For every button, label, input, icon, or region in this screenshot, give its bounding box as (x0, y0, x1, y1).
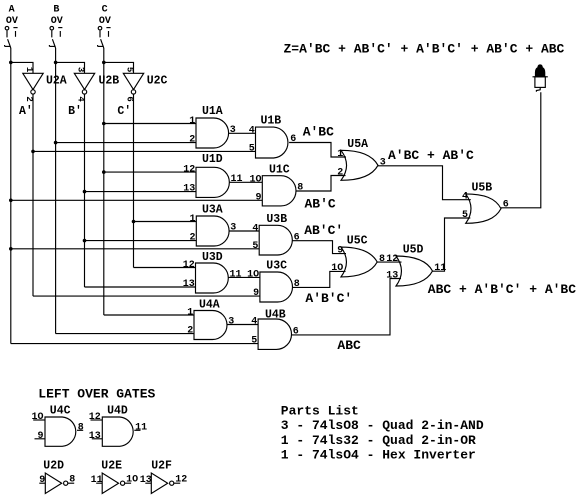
svg-text:8: 8 (379, 254, 385, 265)
OR gate U5A (341, 138, 378, 180)
wire A to U4B pin 5 (11, 343, 258, 345)
wire U1A.3 to U1B.4 (229, 132, 256, 134)
AND gate U1B (256, 114, 288, 158)
input switch C (0V toggle) (98, 5, 111, 48)
wire U5B.6 (Z) to LED (501, 92, 541, 208)
inverter U2B (74, 73, 119, 94)
junction node A / U1C pin 9 tap (9, 199, 13, 203)
svg-text:6: 6 (290, 134, 296, 145)
wire A' to U1B pin 5 (33, 150, 256, 152)
svg-text:U4C: U4C (50, 404, 71, 417)
svg-text:4: 4 (252, 223, 258, 234)
U4B pin numbers 4,5,6 (251, 317, 298, 347)
svg-text:13: 13 (183, 184, 195, 195)
wire A to U3B pin 5 (11, 248, 259, 250)
svg-text:U1A: U1A (202, 105, 223, 118)
junction node C / U2C tap (102, 61, 106, 65)
wire B' to U3D pin 13 (85, 286, 196, 288)
svg-text:8: 8 (69, 474, 75, 485)
svg-text:U2B: U2B (99, 75, 120, 88)
svg-text:LEFT OVER GATES: LEFT OVER GATES (38, 387, 155, 402)
svg-text:6: 6 (294, 232, 300, 243)
wire A' to U3C pin 9 (33, 295, 260, 297)
svg-text:U4D: U4D (107, 404, 128, 417)
svg-text:13: 13 (183, 279, 195, 290)
AND gate U4B (258, 309, 291, 350)
wire B to U1A pin 2 (56, 142, 196, 144)
wire net B' vertical run (from U2B output pin 4) (84, 94, 86, 287)
wire net B vertical run (55, 48, 57, 334)
wire U4B.6 (ABC) to U5D.13 (292, 279, 402, 335)
wire U5A.3 (A'BC + AB'C) to U5B.4 (378, 166, 471, 200)
svg-text:ABC + A'B'C' + A'BC: ABC + A'B'C' + A'BC (428, 282, 576, 297)
wire B' to U3A pin 2 (85, 240, 197, 242)
junction node C' / U3A pin 1 tap (132, 220, 136, 224)
AND gate U3D (196, 251, 229, 293)
input switch A (0V toggle) (5, 5, 18, 48)
svg-text:5: 5 (251, 336, 257, 347)
svg-text:Parts List: Parts List (281, 404, 359, 419)
wire U1B.6 (A'BC) to U5A.1 (289, 143, 346, 158)
U1B pin numbers 4,5,6 (249, 126, 297, 155)
svg-text:U3D: U3D (202, 251, 223, 264)
svg-text:B: B (53, 5, 59, 16)
AND gate U3C (260, 259, 293, 302)
wire U3D.11 to U3C.10 (228, 276, 260, 278)
wire U1D.11 to U1C.10 (229, 181, 262, 183)
svg-text:1O: 1O (331, 263, 343, 274)
U4C pin stubs and numbers 10,9,8 (32, 412, 84, 442)
U3A pin numbers 1,2,3 (190, 214, 237, 244)
wire C' to U3A pin 1 (134, 221, 197, 223)
wire C to inverter U2C input (pin 5) (104, 62, 134, 73)
svg-text:12: 12 (183, 260, 195, 271)
svg-text:1O: 1O (250, 175, 262, 186)
svg-text:1: 1 (190, 214, 196, 225)
wire U3A.3 to U3B.4 (229, 230, 259, 232)
svg-text:U3A: U3A (202, 204, 223, 217)
wire C to U1D pin 12 (104, 171, 196, 173)
AND gate U3A (196, 204, 229, 247)
svg-text:9: 9 (39, 475, 45, 486)
wire C to U1A pin 1 (104, 123, 196, 125)
OR gate U5D (396, 244, 433, 286)
OR gate U5B (466, 182, 501, 224)
svg-text:U2E: U2E (101, 459, 122, 472)
svg-text:2: 2 (190, 233, 196, 244)
wire B to inverter U2B input (pin 3) (56, 62, 85, 73)
svg-text:5: 5 (252, 241, 258, 252)
svg-text:1 - 74lsO4 - Hex Inverter: 1 - 74lsO4 - Hex Inverter (281, 447, 476, 462)
svg-text:U2D: U2D (43, 459, 64, 472)
wire B to U4A pin 2 (56, 333, 194, 335)
wire U3C.8 (A'B'C') to U5C.10 (293, 271, 346, 287)
junction node A / U3B pin 5 tap (9, 247, 13, 251)
svg-text:A': A' (19, 105, 33, 118)
svg-text:AB'C: AB'C (305, 197, 336, 212)
spare inverter U2E (101, 459, 124, 493)
svg-text:1O: 1O (126, 474, 138, 485)
junction node B' / U1D pin 13 tap (83, 190, 87, 194)
AND gate U3B (259, 213, 292, 255)
svg-text:1: 1 (337, 149, 343, 160)
svg-text:13: 13 (386, 270, 398, 281)
svg-text:A: A (9, 5, 15, 16)
svg-text:A'BC: A'BC (303, 125, 334, 140)
inverter U2A (23, 73, 67, 94)
U1A pin numbers 1,2,3 (189, 116, 236, 146)
junction node B / U1A pin 2 tap (54, 141, 58, 145)
svg-text:U5B: U5B (472, 182, 493, 195)
svg-text:4: 4 (251, 317, 257, 328)
wire A to U1C pin 9 (11, 199, 262, 201)
junction node A / U2A tap (9, 61, 13, 65)
junction node A' / U1B pin 5 tap (31, 150, 35, 154)
U5D pin numbers 12,13,11 (386, 254, 446, 281)
svg-text:9: 9 (38, 431, 44, 442)
svg-text:4: 4 (249, 126, 255, 137)
svg-text:U2C: U2C (147, 75, 168, 88)
svg-text:5: 5 (462, 210, 468, 221)
U2E pin stubs and numbers 11,10 (91, 474, 139, 485)
svg-text:11: 11 (231, 174, 243, 185)
svg-text:9: 9 (256, 192, 262, 203)
U1C pin numbers 10,9,8 (250, 175, 304, 204)
svg-text:OV: OV (99, 16, 111, 27)
wire A to inverter U2A input (pin 1) (11, 62, 33, 73)
U5C pin numbers 9,10,8 (331, 245, 385, 274)
svg-text:OV: OV (51, 16, 63, 27)
svg-text:2: 2 (189, 135, 195, 146)
wire net A vertical run (10, 48, 12, 344)
junction node C / U1A pin 1 tap (102, 122, 106, 126)
svg-text:ABC: ABC (337, 338, 361, 353)
svg-text:1 - 74ls32 - Quad 2-in-OR: 1 - 74ls32 - Quad 2-in-OR (281, 433, 476, 448)
svg-text:2: 2 (337, 167, 343, 178)
svg-text:6: 6 (293, 327, 299, 338)
LED output indicator (533, 64, 548, 91)
svg-text:B': B' (68, 105, 82, 118)
svg-text:3: 3 (230, 223, 236, 234)
svg-text:6: 6 (503, 200, 509, 211)
wire net C vertical run (103, 48, 105, 315)
svg-text:13: 13 (89, 431, 101, 442)
wire net C' vertical run (from U2C output pin 6) (133, 94, 135, 267)
spare AND gate U4C (45, 404, 76, 446)
svg-text:C: C (102, 5, 108, 16)
svg-text:8: 8 (294, 279, 300, 290)
svg-text:3 - 74lsO8 - Quad 2-in-AND: 3 - 74lsO8 - Quad 2-in-AND (281, 418, 484, 433)
U2C pin numbers 5,6 (125, 67, 135, 102)
svg-text:U1B: U1B (261, 114, 282, 127)
junction node C / U1D pin 12 tap (102, 170, 106, 174)
input switch B (0V toggle) (49, 5, 62, 48)
U5B pin numbers 4,5,6 (462, 192, 509, 221)
junction node B / U2B tap (54, 61, 58, 65)
svg-text:U3B: U3B (266, 213, 287, 226)
AND gate U4A (194, 299, 227, 340)
svg-text:U2F: U2F (151, 459, 172, 472)
wire B' to U1D pin 13 (85, 191, 197, 193)
wire U3B.6 (AB'C') to U5C.9 (292, 241, 346, 254)
svg-text:13: 13 (140, 475, 152, 486)
U3C pin numbers 10,9,8 (247, 270, 300, 300)
svg-text:12: 12 (89, 412, 101, 423)
svg-text:A'BC + AB'C: A'BC + AB'C (388, 148, 474, 163)
svg-text:12: 12 (183, 164, 195, 175)
svg-text:Z=A'BC + AB'C' + A'B'C' + AB'C: Z=A'BC + AB'C' + A'B'C' + AB'C + ABC (284, 42, 565, 57)
svg-text:8: 8 (78, 422, 84, 433)
svg-text:U1D: U1D (202, 153, 223, 166)
svg-text:11: 11 (135, 422, 147, 433)
svg-text:9: 9 (253, 288, 259, 299)
svg-text:U5A: U5A (347, 138, 368, 151)
svg-text:12: 12 (175, 474, 187, 485)
wire net A' vertical run (from U2A output pin 2) (32, 94, 34, 296)
svg-text:11: 11 (230, 270, 242, 281)
svg-text:5: 5 (249, 144, 255, 155)
svg-text:1: 1 (189, 116, 195, 127)
svg-text:U5C: U5C (347, 234, 368, 247)
U2B pin numbers 3,4 (76, 67, 86, 103)
svg-text:1: 1 (187, 307, 193, 318)
U2D pin stubs and numbers 9,8 (39, 474, 75, 485)
svg-text:U4B: U4B (265, 309, 286, 322)
OR gate U5C (341, 234, 377, 277)
U4A pin numbers 1,2,3 (187, 307, 234, 336)
U3B pin numbers 4,5,6 (252, 223, 299, 252)
wire U1C.8 (AB'C) to U5A.2 (296, 176, 346, 192)
svg-text:3: 3 (380, 158, 386, 169)
spare inverter U2D (43, 459, 67, 493)
svg-text:4: 4 (462, 192, 468, 203)
svg-text:3: 3 (228, 317, 234, 328)
svg-text:1O: 1O (32, 412, 44, 423)
wire U5C.8 to U5D.12 (377, 261, 401, 263)
svg-text:9: 9 (337, 245, 343, 256)
junction node B' / U3A pin 2 tap (83, 239, 87, 243)
U1D pin numbers 12,13,11 (183, 164, 242, 194)
spare AND gate U4D (102, 404, 133, 446)
spare inverter U2F (151, 459, 174, 493)
svg-text:11: 11 (91, 475, 103, 486)
wire C to U4A pin 1 (104, 314, 194, 316)
svg-text:AB'C': AB'C' (304, 223, 343, 238)
svg-text:U3C: U3C (266, 259, 287, 272)
U2F pin stubs and numbers 13,12 (140, 474, 188, 485)
svg-text:A'B'C': A'B'C' (305, 291, 352, 306)
svg-text:OV: OV (6, 16, 18, 27)
svg-text:2: 2 (187, 326, 193, 337)
inverter U2C (123, 73, 167, 94)
AND gate U1A (196, 105, 229, 148)
svg-text:U4A: U4A (199, 299, 220, 312)
svg-text:U2A: U2A (46, 75, 67, 88)
wire U5D.11 to U5B.5 (433, 218, 471, 271)
svg-text:U1C: U1C (269, 164, 290, 177)
wire U4A.3 to U4B.4 (227, 324, 258, 326)
U3D pin numbers 12,13,11 (183, 260, 242, 290)
U2A pin numbers 1,2 (24, 67, 34, 102)
AND gate U1C (262, 164, 296, 206)
wire C' to U3D pin 12 (134, 267, 196, 269)
svg-text:C': C' (117, 105, 131, 118)
U4D pin stubs and numbers 12,13,11 (89, 412, 147, 442)
svg-text:U5D: U5D (403, 244, 424, 257)
U5A pin numbers 1,2,3 (337, 149, 386, 179)
AND gate U1D (196, 153, 229, 197)
svg-text:3: 3 (230, 125, 236, 136)
svg-text:1O: 1O (247, 270, 259, 281)
svg-text:8: 8 (297, 183, 303, 194)
svg-text:12: 12 (386, 254, 398, 265)
